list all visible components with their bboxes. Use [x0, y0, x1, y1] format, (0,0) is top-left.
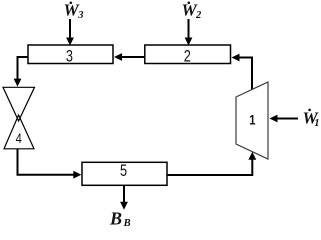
svg-text:B: B [109, 209, 122, 229]
compressor 1 [236, 82, 268, 159]
wire W2 input arrow into block 2 [185, 19, 193, 46]
svg-text:B: B [123, 218, 131, 229]
heat exchanger block 2 [145, 45, 231, 66]
svg-text:1: 1 [249, 112, 255, 127]
svg-text:2: 2 [195, 10, 202, 21]
evaporator block 5 [82, 161, 167, 185]
svg-text:4: 4 [16, 131, 22, 146]
expansion valve 4 [3, 87, 35, 149]
wire from compressor 1 top into block 2 [232, 54, 253, 91]
wire from block 2 to block 3 [114, 53, 145, 61]
svg-text:3: 3 [66, 47, 73, 66]
wire from block 5 up into compressor 1 bottom [167, 152, 256, 175]
label W1 [303, 109, 320, 130]
wire from block 3 down to expansion valve 4 [14, 57, 28, 87]
label B_B [109, 209, 131, 230]
svg-text:5: 5 [120, 161, 127, 180]
svg-text:1: 1 [314, 118, 319, 129]
wire B output arrow below block 5 [120, 186, 128, 210]
label W2 [182, 1, 203, 22]
wire W3 input arrow into block 3 [66, 19, 74, 46]
wire W1 input arrow into compressor 1 [270, 115, 299, 123]
svg-text:3: 3 [77, 10, 83, 21]
wire from valve 4 to block 5 [18, 149, 82, 179]
svg-text:2: 2 [184, 47, 191, 66]
heat exchanger block 3 [28, 45, 113, 66]
label W3 [64, 1, 84, 22]
